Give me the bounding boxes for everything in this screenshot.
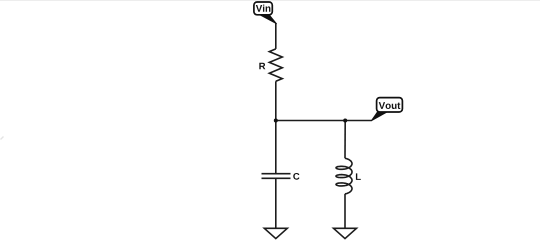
- capacitor C value label: [293, 173, 299, 180]
- ground symbol under inductor: [334, 228, 357, 238]
- capacitor C bottom plate: [262, 177, 291, 179]
- wire: resistor bottom to node junction: [275, 81, 277, 120]
- wire: capacitor bottom to ground: [275, 178, 277, 228]
- ground symbol under capacitor: [264, 228, 287, 238]
- net flag Vin label text: [256, 5, 271, 12]
- resistor R value label: [259, 63, 265, 70]
- inductor L coil body: [336, 158, 352, 194]
- wire: horizontal to Vout tail: [345, 120, 371, 122]
- net flag Vout box: [377, 98, 403, 112]
- wire: node down to capacitor top: [275, 121, 277, 174]
- net flag Vin tail: [259, 14, 277, 24]
- wire: inductor bottom to ground: [344, 194, 346, 228]
- net flag Vout tail: [371, 112, 387, 121]
- capacitor C top plate: [262, 173, 291, 175]
- wire: Vin tail to resistor top: [275, 23, 277, 49]
- junction node at L branch: [343, 119, 347, 123]
- net flag Vout label text: [379, 102, 401, 109]
- inductor L value label: [356, 173, 361, 180]
- screenshot edge artifact top: [0, 0, 540, 2]
- screenshot artifact left smudge: [1, 137, 4, 140]
- wire: junction down to inductor top: [344, 121, 346, 159]
- net flag Vin box: [254, 2, 272, 15]
- wire: horizontal node to inductor branch: [276, 120, 345, 122]
- resistor R zigzag body: [269, 49, 282, 81]
- junction node at R/C: [274, 119, 278, 123]
